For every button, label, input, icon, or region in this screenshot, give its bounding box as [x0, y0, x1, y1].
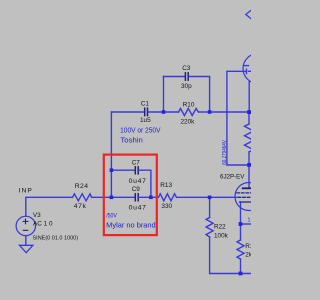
svg-text:6J2P-EV: 6J2P-EV: [220, 173, 245, 180]
svg-text:1u5: 1u5: [140, 117, 151, 124]
wire plate resistor to plate node: [248, 152, 250, 165]
wire cathode to R15: [240, 224, 242, 240]
svg-text:INP: INP: [19, 188, 33, 195]
svg-text:30p: 30p: [181, 83, 192, 90]
tube U2 upper envelope: [243, 54, 273, 84]
U1 grid g1 dashes: [238, 196, 251, 198]
black labels: [19, 65, 258, 259]
svg-text:2k2: 2k2: [245, 252, 251, 259]
wire C3 right: [189, 77, 210, 113]
resistor R10: [179, 109, 199, 116]
svg-text:Toshin: Toshin: [120, 136, 142, 145]
svg-text:SINE(0 01.0 1000): SINE(0 01.0 1000): [33, 236, 79, 242]
svg-text:R13: R13: [160, 182, 172, 189]
wire C1 to node: [148, 111, 163, 113]
svg-text:AC 1 0: AC 1 0: [33, 220, 53, 227]
U2 upper grid dash: [244, 65, 249, 67]
wire C7 branch: [111, 169, 134, 171]
capacitor C1: [145, 108, 148, 115]
svg-text:V3: V3: [33, 212, 41, 219]
svg-text:1.2: 1.2: [248, 217, 252, 223]
wire R22 top: [209, 197, 211, 217]
wire R13 to grid of U1: [177, 196, 237, 198]
wire C9 to R13: [139, 196, 158, 198]
wire R15 bottom: [240, 259, 242, 274]
svg-text:R24: R24: [75, 183, 89, 190]
resistor R13: [158, 194, 176, 201]
wire node to top tube cathode: [210, 111, 249, 113]
svg-text:0u47: 0u47: [129, 178, 147, 185]
svg-text:C1: C1: [141, 100, 150, 107]
wire R24 to C9: [92, 196, 135, 198]
U2 grid dash: [249, 70, 251, 72]
junction dots: [110, 110, 251, 275]
svg-text:C3: C3: [182, 65, 191, 72]
wire node to R10: [164, 111, 179, 113]
U1 plate bar: [243, 187, 255, 189]
wire cathode lead U1: [240, 202, 242, 224]
resistor R11 plate load: [245, 124, 254, 152]
node dot C7 left: [110, 168, 114, 172]
svg-text:60.279464V: 60.279464V: [222, 140, 228, 165]
U1 cathode: [240, 201, 251, 203]
node dot grid line: [208, 196, 212, 200]
resistor R24: [73, 194, 92, 201]
U1 grid g2 dashes: [237, 192, 251, 194]
svg-text:100V or 250V: 100V or 250V: [120, 125, 161, 134]
capacitor C7: [135, 167, 138, 174]
wire cathode branch right: [241, 223, 252, 225]
resistor R15: [237, 240, 244, 259]
tube U1 6J2P-EV envelope: [235, 183, 263, 211]
node branch vertical into red box: [110, 112, 112, 197]
red highlight box: [104, 155, 157, 236]
voltage source V3: [16, 216, 35, 235]
node dot R10 right: [208, 110, 212, 114]
wire node to plate resistor: [248, 112, 250, 124]
output chevron flag: [246, 10, 251, 18]
wire corner to C1: [111, 111, 144, 113]
node dot top tube cathode: [247, 110, 251, 114]
svg-text:R10: R10: [183, 101, 195, 108]
resistor R22: [206, 218, 213, 238]
wire V3 to ground: [25, 236, 27, 246]
wire plate lead U1: [248, 165, 250, 188]
node dot plate 60V: [247, 163, 251, 167]
svg-text:/50V: /50V: [106, 213, 117, 220]
node dot C9 left: [110, 196, 114, 200]
svg-text:330: 330: [161, 203, 172, 210]
wire plate node to grid wire of upper tube: [227, 71, 249, 165]
U2 cathode tick: [246, 69, 248, 73]
wire C7 to node: [139, 170, 151, 197]
node dot C1/R10 left: [162, 110, 166, 114]
node dot bottom rail: [239, 272, 243, 276]
svg-text:0u47: 0u47: [129, 205, 147, 212]
svg-text:R22: R22: [214, 224, 226, 231]
svg-text:47k: 47k: [74, 203, 87, 210]
V3 minus sign: [23, 229, 28, 231]
wire C3 left: [164, 76, 185, 78]
svg-text:Mylar no brand: Mylar no brand: [106, 220, 156, 229]
svg-text:100k: 100k: [214, 233, 229, 240]
wire R22 bottom: [210, 237, 251, 274]
node dot cathode: [239, 222, 243, 226]
blue comments: [106, 125, 255, 229]
capacitor C3: [185, 73, 188, 80]
svg-text:220k: 220k: [181, 119, 196, 126]
capacitor C9: [135, 194, 138, 201]
V3 plus sign: [23, 219, 28, 224]
node dot C9/C7 right: [149, 196, 153, 200]
wire INP to R24: [26, 197, 73, 216]
svg-text:R15: R15: [245, 243, 251, 250]
wire R10 to node: [198, 111, 209, 113]
svg-text:C9: C9: [132, 186, 141, 193]
C3 loop left vertical: [163, 77, 165, 113]
ground: [20, 245, 33, 252]
svg-text:C7: C7: [132, 159, 141, 166]
wire top tube cathode lead: [248, 81, 250, 112]
